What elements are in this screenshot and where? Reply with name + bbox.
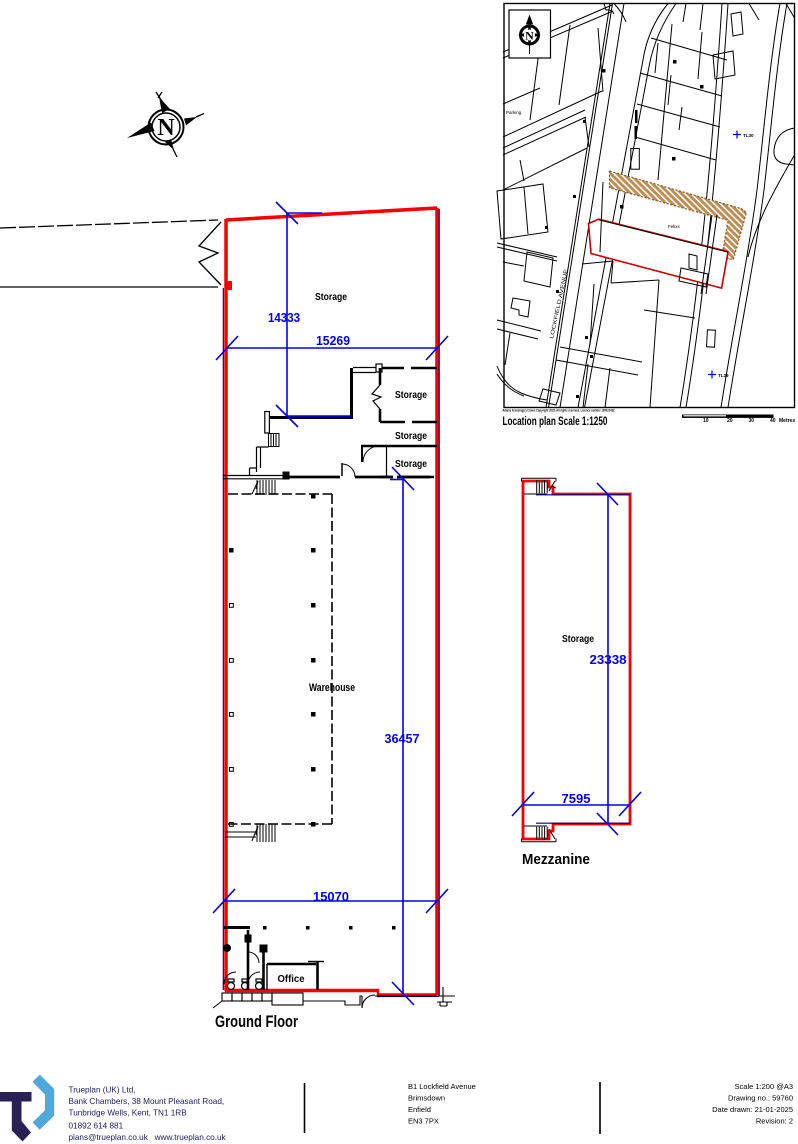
svg-text:plans@trueplan.co.uk www.tru: plans@trueplan.co.uk www.trueplan.co.uk	[69, 1133, 227, 1142]
svg-text:Storage: Storage	[395, 389, 427, 401]
svg-text:36457: 36457	[385, 731, 420, 746]
svg-text:Revision: 2: Revision: 2	[756, 1117, 793, 1126]
svg-text:Felixs: Felixs	[668, 224, 681, 229]
svg-text:20: 20	[727, 418, 733, 424]
svg-text:23338: 23338	[590, 652, 627, 667]
svg-text:Bank Chambers, 38 Mount Pleasa: Bank Chambers, 38 Mount Pleasant Road,	[69, 1097, 225, 1106]
svg-text:Drawing no.: 59760: Drawing no.: 59760	[728, 1094, 793, 1103]
svg-text:Brimsdown: Brimsdown	[408, 1094, 445, 1103]
svg-text:Enfield: Enfield	[408, 1105, 431, 1114]
svg-text:Adams licensing(c) Crown Copyr: Adams licensing(c) Crown Copyright 2025.…	[503, 408, 616, 413]
svg-text:10: 10	[703, 418, 709, 424]
svg-text:Metres: Metres	[779, 418, 795, 424]
svg-text:N: N	[157, 115, 175, 141]
svg-text:Parking: Parking	[506, 110, 522, 115]
svg-text:14333: 14333	[268, 310, 300, 325]
svg-text:Warehouse: Warehouse	[309, 682, 355, 694]
svg-text:40: 40	[770, 418, 776, 424]
svg-text:15269: 15269	[316, 333, 350, 348]
svg-text:B1 Lockfield Avenue: B1 Lockfield Avenue	[408, 1082, 476, 1091]
svg-text:N: N	[525, 29, 534, 43]
svg-text:15070: 15070	[313, 889, 349, 904]
svg-text:Storage: Storage	[315, 291, 347, 303]
svg-text:Mezzanine: Mezzanine	[522, 851, 590, 868]
svg-text:Storage: Storage	[395, 458, 427, 470]
svg-text:Tunbridge Wells, Kent, TN1 1RB: Tunbridge Wells, Kent, TN1 1RB	[69, 1109, 188, 1118]
svg-text:Ground Floor: Ground Floor	[215, 1012, 298, 1031]
svg-text:Scale 1:200 @A3: Scale 1:200 @A3	[735, 1082, 793, 1091]
svg-text:01892 614 881: 01892 614 881	[69, 1122, 124, 1131]
svg-text:Storage: Storage	[562, 633, 594, 645]
svg-text:TL30: TL30	[743, 133, 754, 138]
svg-text:Date drawn: 21-01-2025: Date drawn: 21-01-2025	[712, 1105, 793, 1114]
svg-text:Trueplan (UK) Ltd,: Trueplan (UK) Ltd,	[69, 1086, 136, 1095]
svg-text:Office: Office	[278, 973, 305, 985]
svg-text:Location plan Scale 1:1250: Location plan Scale 1:1250	[503, 414, 608, 428]
svg-text:Storage: Storage	[395, 430, 427, 442]
svg-text:EN3 7PX: EN3 7PX	[408, 1117, 439, 1126]
svg-text:7595: 7595	[562, 791, 591, 806]
svg-text:30: 30	[749, 418, 755, 424]
svg-text:TL29: TL29	[718, 373, 729, 378]
